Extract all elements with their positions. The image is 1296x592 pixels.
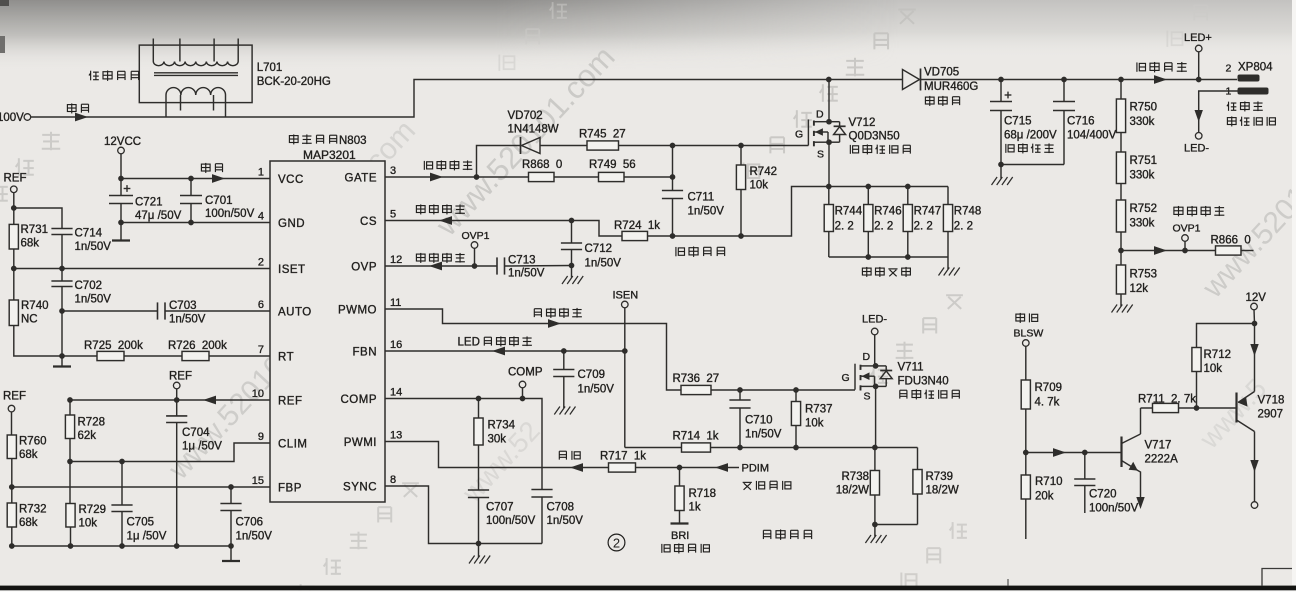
svg-text:R760: R760 bbox=[19, 436, 47, 448]
svg-text:REF: REF bbox=[4, 173, 27, 185]
value 10k R737 bbox=[805, 418, 824, 430]
svg-text:C710: C710 bbox=[745, 415, 773, 427]
junction rail R750 bbox=[1118, 77, 1124, 83]
svg-text:D: D bbox=[816, 109, 824, 121]
svg-text:1n/50V: 1n/50V bbox=[75, 294, 112, 306]
arrow V718 collector bbox=[1250, 460, 1258, 472]
capacitor C714 bbox=[51, 229, 72, 235]
capacitor C716 bbox=[1053, 102, 1075, 111]
junction C712/OVP row bbox=[569, 263, 575, 269]
svg-text:1n/50V: 1n/50V bbox=[547, 515, 584, 527]
svg-text:R866 0: R866 0 bbox=[1211, 235, 1251, 247]
watermark www.520101.com center lower bbox=[456, 415, 546, 509]
svg-text:330k: 330k bbox=[1130, 116, 1155, 128]
value 68k bbox=[21, 238, 40, 250]
value 100n/50V C720 bbox=[1089, 503, 1139, 515]
svg-text:COMP: COMP bbox=[341, 394, 378, 406]
transistor V711 dimming MOSFET source junction bbox=[873, 384, 879, 390]
svg-text:15: 15 bbox=[252, 475, 264, 487]
arrow V717 emitter bbox=[1136, 497, 1144, 509]
svg-text:18/2W: 18/2W bbox=[926, 485, 959, 497]
label qudong dianlu (driver circuit) bbox=[289, 134, 336, 144]
wire R711 row bbox=[1141, 407, 1237, 409]
svg-text:RT: RT bbox=[278, 352, 294, 364]
junction sense row R747 bbox=[905, 184, 911, 190]
plus sign C721 bbox=[124, 185, 131, 192]
connector XP804 pin 1 bbox=[1238, 88, 1269, 95]
junction rail C715 bbox=[998, 77, 1004, 83]
junction CLIM/R728 bbox=[67, 459, 73, 465]
svg-text:BRI: BRI bbox=[671, 530, 689, 542]
label R746 bbox=[874, 206, 902, 218]
label shengya shuchu (boost output) bbox=[1137, 62, 1187, 72]
pin number 1 bbox=[258, 166, 264, 178]
junction bottom rail R729 bbox=[68, 543, 74, 549]
wire R750-R751 bbox=[1120, 133, 1122, 153]
pin number 11 bbox=[390, 297, 401, 309]
resistor R750 bbox=[1116, 99, 1125, 133]
wire C707 to bottom bbox=[478, 498, 480, 544]
wire R729 column bbox=[69, 462, 71, 504]
svg-text:1n/50V: 1n/50V bbox=[169, 314, 206, 326]
watermark hanzi chain top far right faint bbox=[1167, 5, 1207, 47]
wire R751-R752 bbox=[1120, 184, 1122, 201]
svg-text:C706: C706 bbox=[236, 517, 264, 529]
resistor R739 bbox=[913, 470, 922, 495]
value 1N4148W bbox=[508, 124, 559, 136]
arrow from PDIM bbox=[715, 463, 728, 472]
transistor V718 PNP bbox=[1237, 392, 1255, 432]
capacitor C720 bbox=[1074, 479, 1095, 486]
wire REF terminal stub bbox=[176, 389, 178, 416]
svg-text:R736 27: R736 27 bbox=[673, 373, 720, 385]
value 1u/50V C705 bbox=[127, 531, 167, 543]
junction ISET/R731 bbox=[11, 266, 17, 272]
svg-text:OVP1: OVP1 bbox=[1173, 223, 1201, 235]
junction R736/R737 bbox=[793, 387, 799, 393]
transistor V712 power MOSFET bbox=[808, 120, 845, 147]
label VD705 bbox=[924, 67, 959, 79]
label R749 56 bbox=[589, 159, 636, 171]
wire C721 to ground bbox=[120, 204, 122, 241]
pin name SYNC bbox=[343, 482, 377, 494]
svg-text:12: 12 bbox=[390, 254, 402, 266]
svg-text:1: 1 bbox=[258, 166, 264, 178]
wire C702 to RT row bbox=[61, 287, 63, 357]
junction C701 bottom bbox=[188, 220, 194, 226]
resistor R740 bbox=[9, 300, 18, 326]
op-amp U1 driver IC N803 MAP3201 box bbox=[270, 161, 385, 502]
resistor R718 bbox=[675, 486, 684, 511]
svg-text:G: G bbox=[842, 372, 850, 384]
ground under C709 bbox=[554, 377, 575, 415]
svg-text:11: 11 bbox=[390, 297, 401, 309]
pin name RT bbox=[278, 352, 294, 364]
capacitor C715 bbox=[990, 102, 1012, 111]
arrow into REF node bbox=[203, 396, 216, 405]
scan artifact top-left corner blob bbox=[0, 0, 9, 6]
label C705 bbox=[127, 517, 155, 529]
wire R750 top stub bbox=[1120, 80, 1122, 100]
wire COMP terminal stub bbox=[522, 388, 524, 399]
wire R739 bottom stub bbox=[917, 494, 919, 525]
wire C716 bottom link bbox=[1001, 164, 1064, 166]
label 100V input bbox=[0, 112, 24, 124]
junction RT row ground bbox=[59, 353, 65, 359]
value 2907 bbox=[1258, 409, 1284, 421]
junction OVP1 bbox=[472, 263, 478, 269]
diode VD705 bbox=[903, 69, 921, 91]
terminal REF top left bbox=[11, 186, 18, 193]
wire C706 to rail and ground bbox=[230, 511, 232, 547]
arrow on 100V rail bbox=[75, 113, 88, 122]
wire R760 to FBP row bbox=[11, 459, 13, 488]
wire PWMI path bbox=[385, 442, 609, 468]
svg-text:2: 2 bbox=[258, 256, 264, 268]
resistor R725 bbox=[97, 351, 124, 360]
junction bottom rail R732 bbox=[9, 543, 15, 549]
capacitor C705 bbox=[111, 505, 132, 512]
wire C713 to C712 node bbox=[505, 265, 572, 268]
svg-text:R746: R746 bbox=[874, 206, 902, 218]
ground under R753 bbox=[1112, 294, 1133, 313]
svg-text:LED: LED bbox=[458, 337, 480, 349]
terminal 12VCC bbox=[118, 147, 125, 154]
wire C704 to bottom rail bbox=[176, 423, 178, 547]
watermark hanzi chain bottom left bbox=[298, 483, 419, 592]
label C716 bbox=[1067, 116, 1095, 128]
resistor R729 bbox=[66, 504, 75, 528]
wire C705 to bottom rail bbox=[121, 512, 123, 547]
watermark www.520101.com left of IC bbox=[308, 114, 422, 233]
svg-text:62k: 62k bbox=[78, 430, 97, 442]
svg-text:2. 2: 2. 2 bbox=[835, 221, 854, 233]
plus sign C715 bbox=[1005, 92, 1012, 99]
label chuneng dian'gan (storage inductor) bbox=[89, 70, 139, 80]
wire R747 bottom stub bbox=[907, 232, 909, 258]
svg-text:R717 1k: R717 1k bbox=[600, 451, 646, 463]
bottom right corner mark bbox=[1262, 569, 1296, 586]
resistor R742 bbox=[736, 165, 745, 190]
svg-text:FBN: FBN bbox=[353, 347, 378, 359]
pin number 7 bbox=[258, 344, 264, 356]
junction 12VCC/VCC row bbox=[118, 176, 124, 182]
value 330k R752 bbox=[1130, 218, 1155, 230]
label tiaoliu dianlu (dimming circuit) bbox=[763, 529, 811, 539]
label R726 200k bbox=[168, 340, 227, 352]
pin name GND bbox=[278, 218, 305, 230]
svg-text:1n/50V: 1n/50V bbox=[745, 429, 782, 441]
junction FBP/R760 bbox=[9, 484, 15, 490]
svg-text:C712: C712 bbox=[585, 243, 613, 255]
resistor R752 bbox=[1116, 200, 1125, 232]
junction R738/R739 bottom bbox=[872, 522, 878, 528]
resistor R866 bbox=[1216, 246, 1242, 255]
junction R714/C710 bbox=[737, 445, 743, 451]
svg-text:R725 200k: R725 200k bbox=[84, 340, 143, 352]
resistor R753 bbox=[1116, 265, 1125, 294]
svg-text:GATE: GATE bbox=[345, 173, 377, 185]
pin label G V712 bbox=[795, 129, 803, 141]
svg-text:R737: R737 bbox=[805, 404, 833, 416]
label COMP bbox=[508, 367, 543, 379]
wire C701 bottom stub bbox=[190, 204, 192, 223]
label tiaoliu qudong (dimming drive) bbox=[534, 308, 582, 318]
svg-text:VD705: VD705 bbox=[924, 67, 959, 79]
label C714 bbox=[75, 228, 103, 240]
value 10k R712 bbox=[1204, 363, 1223, 375]
svg-text:C714: C714 bbox=[75, 228, 103, 240]
junction GND row C721 bbox=[118, 220, 124, 226]
inductor L701 secondary winding bbox=[166, 88, 226, 117]
resistor R710 bbox=[1021, 475, 1030, 499]
label R866 0 bbox=[1211, 235, 1251, 247]
svg-text:C715: C715 bbox=[1004, 116, 1032, 128]
wire R737 top stub bbox=[795, 390, 797, 402]
value 12k R753 bbox=[1130, 283, 1149, 295]
label R710 bbox=[1035, 476, 1063, 488]
ground under C712 bbox=[562, 266, 583, 285]
wire V712 drain to top rail bbox=[828, 80, 830, 122]
pin number 16 bbox=[390, 339, 402, 351]
scan artifact left edge blob bbox=[0, 36, 5, 53]
svg-text:G: G bbox=[795, 129, 803, 141]
watermark hanzi chain left edge bbox=[0, 132, 60, 228]
wire 100V rail bbox=[31, 80, 903, 118]
label R724 1k bbox=[614, 220, 660, 232]
label R712 bbox=[1204, 349, 1232, 361]
svg-text:AUTO: AUTO bbox=[278, 307, 312, 319]
svg-text:330k: 330k bbox=[1130, 218, 1155, 230]
label guoya baohu (overvoltage protection) bbox=[416, 253, 465, 263]
wire R738 bottom bbox=[874, 495, 876, 525]
pin number 5 bbox=[390, 208, 396, 220]
junction FBN/ISEN bbox=[622, 348, 628, 354]
wire OVP1 to C713 bbox=[475, 265, 497, 267]
wire OVP row bbox=[385, 265, 475, 267]
arrow overcurrent protect bbox=[439, 216, 452, 225]
svg-text:LED-: LED- bbox=[862, 314, 887, 326]
wire C705 column bbox=[121, 462, 123, 506]
pin name PWMI bbox=[344, 437, 377, 449]
capacitor C713 bbox=[497, 257, 505, 274]
wire C702 stub top bbox=[61, 269, 63, 282]
label C706 bbox=[236, 517, 264, 529]
junction OVP divider bbox=[1118, 248, 1124, 254]
wire V718 collector down bbox=[1254, 432, 1256, 502]
label 12V bbox=[1246, 292, 1267, 304]
wire current sense bottom row bbox=[829, 256, 948, 258]
capacitor C702 bbox=[51, 281, 72, 287]
label R753 bbox=[1130, 269, 1158, 281]
label R732 bbox=[19, 504, 47, 516]
junction bottom row R747 bbox=[905, 254, 911, 260]
value 330k R750 bbox=[1130, 116, 1155, 128]
svg-text:1n/50V: 1n/50V bbox=[585, 258, 622, 270]
value 1n/50V C703 bbox=[169, 314, 206, 326]
label OVP1 right bbox=[1173, 223, 1201, 235]
wire REF to R731 bbox=[13, 192, 15, 224]
resistor R745 bbox=[587, 141, 619, 150]
watermark www.520101.com right edge bbox=[1196, 139, 1296, 305]
label C709 bbox=[578, 369, 606, 381]
label R742 bbox=[750, 166, 778, 178]
svg-text:R714 1k: R714 1k bbox=[673, 431, 719, 443]
label R740 bbox=[21, 300, 49, 312]
svg-text:COMP: COMP bbox=[508, 367, 543, 379]
junction REF row / C704 bbox=[174, 397, 180, 403]
wire R709 to node bbox=[1025, 409, 1027, 453]
value 330k R751 bbox=[1130, 170, 1155, 182]
wire C720 top stub bbox=[1084, 453, 1086, 480]
resistor R709 bbox=[1021, 380, 1030, 409]
resistor R749 bbox=[599, 172, 625, 181]
svg-text:D: D bbox=[863, 351, 871, 363]
label R748 bbox=[954, 206, 982, 218]
value 10k bbox=[79, 518, 98, 530]
pin name ISET bbox=[278, 264, 306, 276]
svg-text:68k: 68k bbox=[19, 517, 38, 529]
value 2.2 R744 bbox=[835, 221, 854, 233]
junction R736/C710 bbox=[737, 387, 743, 393]
resistor R737 bbox=[791, 402, 800, 426]
label R725 200k bbox=[84, 340, 143, 352]
capacitor C709 bbox=[553, 370, 574, 377]
terminal OVP1 right bbox=[1182, 235, 1189, 242]
arrow LED current feedback bbox=[492, 347, 505, 356]
wire C720 bottom stub bbox=[1084, 486, 1086, 514]
value 1u/50V C704 bbox=[182, 441, 222, 453]
label C712 bbox=[585, 243, 613, 255]
junction C715/C716 ground bbox=[998, 162, 1004, 168]
svg-text:R710: R710 bbox=[1035, 476, 1063, 488]
junction GATE/VD702 branch bbox=[474, 174, 480, 180]
capacitor C703 bbox=[158, 302, 166, 319]
svg-text:68μ /200V: 68μ /200V bbox=[1004, 130, 1057, 142]
pin name FBP bbox=[278, 483, 302, 495]
label REF top left bbox=[4, 173, 27, 185]
svg-text:R739: R739 bbox=[926, 471, 954, 483]
wire C712 bottom stub bbox=[571, 250, 573, 266]
svg-text:10k: 10k bbox=[79, 518, 98, 530]
value 104/400V bbox=[1067, 130, 1117, 142]
svg-text:R718: R718 bbox=[689, 488, 717, 500]
svg-text:V711: V711 bbox=[898, 362, 924, 374]
junction CS/C712 bbox=[569, 218, 575, 224]
ground under C715 bbox=[992, 165, 1013, 186]
resistor R744 bbox=[824, 205, 833, 232]
svg-text:R732: R732 bbox=[19, 504, 47, 516]
label R728 bbox=[78, 417, 106, 429]
label lianjieqi (connector) bbox=[1227, 101, 1263, 111]
junction rail C716 bbox=[1061, 77, 1067, 83]
svg-text:10: 10 bbox=[252, 388, 264, 400]
junction R714/R737 bbox=[793, 445, 799, 451]
pin number 8 bbox=[390, 474, 396, 486]
diode VD702 bbox=[521, 137, 541, 154]
value 4.7k bbox=[1035, 397, 1060, 409]
label xuliuguan (freewheel diode) bbox=[925, 96, 959, 106]
wire R748 bottom stub bbox=[947, 232, 949, 258]
junction GATE/C711 column bbox=[670, 174, 676, 180]
pin number 13 bbox=[390, 429, 402, 441]
wire V711 source to R738 bbox=[874, 448, 876, 471]
wire R748 top stub bbox=[947, 187, 949, 205]
watermark www.520101.com bottom right bbox=[1193, 373, 1273, 455]
value 2.2 R746 bbox=[874, 221, 893, 233]
watermark hanzi chain top middle faint bbox=[499, 2, 567, 71]
svg-text:1n/50V: 1n/50V bbox=[75, 241, 112, 253]
label guoliu quyang (current sampling) bbox=[862, 267, 910, 277]
svg-text:2907: 2907 bbox=[1258, 409, 1284, 421]
svg-text:12V: 12V bbox=[1246, 292, 1267, 304]
svg-text:C703: C703 bbox=[169, 300, 197, 312]
wire FBN row bbox=[385, 350, 625, 352]
wire REF node to C714 column bbox=[14, 208, 62, 229]
svg-text:R709: R709 bbox=[1035, 382, 1063, 394]
value QOD3N50 bbox=[849, 131, 900, 143]
pin label D V711 bbox=[863, 351, 871, 363]
pin number 2 XP804 bbox=[1226, 63, 1232, 75]
capacitor C710 bbox=[729, 400, 750, 408]
arrow boost output bbox=[1154, 75, 1167, 84]
value 2222A bbox=[1145, 454, 1179, 466]
wire C712 top stub bbox=[571, 221, 573, 244]
svg-text:68k: 68k bbox=[19, 449, 38, 461]
svg-text:C716: C716 bbox=[1067, 116, 1095, 128]
svg-text:R738: R738 bbox=[842, 471, 870, 483]
svg-text:R752: R752 bbox=[1130, 203, 1158, 215]
capacitor C701 bbox=[180, 196, 202, 204]
svg-text:ISET: ISET bbox=[278, 264, 306, 276]
wire VCC row bbox=[121, 178, 270, 180]
resistor R724 bbox=[622, 231, 648, 240]
svg-text:18/2W: 18/2W bbox=[836, 485, 869, 497]
svg-text:R750: R750 bbox=[1130, 102, 1158, 114]
value 1n/50V C709 bbox=[578, 384, 615, 396]
wire after R866 bbox=[1241, 250, 1254, 252]
terminal COMP bbox=[519, 381, 526, 388]
junction REF node bbox=[11, 205, 17, 211]
svg-text:C708: C708 bbox=[547, 502, 575, 514]
resistor R728 bbox=[65, 415, 74, 439]
junction bottom rail C706 bbox=[228, 543, 234, 549]
svg-text:XP804: XP804 bbox=[1238, 62, 1273, 74]
pin number 14 bbox=[390, 386, 402, 398]
junction 12V node bbox=[1252, 321, 1258, 327]
svg-text:R868 0: R868 0 bbox=[522, 159, 562, 171]
capacitor C711 bbox=[662, 191, 683, 199]
wire LED+ stub bbox=[1198, 52, 1200, 80]
svg-text:PDIM: PDIM bbox=[742, 463, 770, 475]
svg-text:R753: R753 bbox=[1130, 269, 1158, 281]
wire CS to R724 bbox=[572, 221, 623, 237]
resistor R711 bbox=[1153, 403, 1179, 412]
wire GND row bbox=[121, 222, 270, 224]
value 68u/200V bbox=[1004, 130, 1057, 142]
label R752 bbox=[1130, 203, 1158, 215]
pin number 12 bbox=[390, 254, 402, 266]
junction sync rail C707 bbox=[476, 541, 482, 547]
wire VD702 to R745 bbox=[540, 145, 587, 147]
junction OVP1 right bbox=[1182, 248, 1188, 254]
svg-text:68k: 68k bbox=[21, 238, 40, 250]
label V717 bbox=[1145, 440, 1172, 452]
svg-text:BCK-20-20HG: BCK-20-20HG bbox=[257, 76, 331, 88]
svg-text:R724 1k: R724 1k bbox=[614, 220, 660, 232]
svg-text:R748: R748 bbox=[954, 206, 982, 218]
svg-text:R745 27: R745 27 bbox=[579, 129, 626, 141]
